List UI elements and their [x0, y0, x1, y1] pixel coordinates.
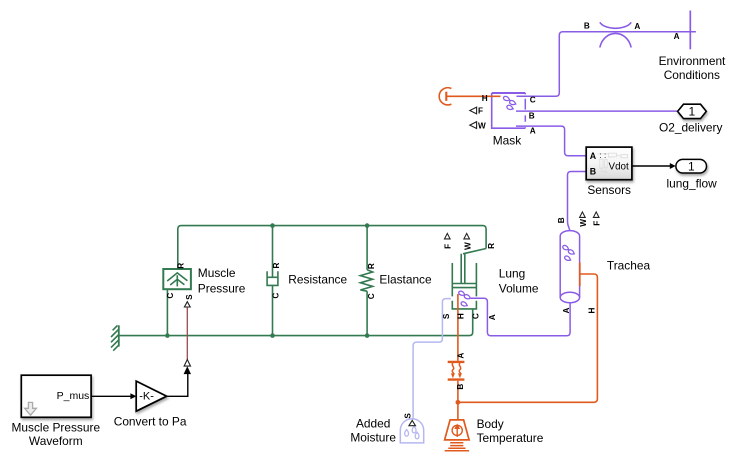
- svg-text:S: S: [442, 313, 451, 319]
- block Mask: [492, 92, 526, 94]
- svg-text:A: A: [590, 151, 597, 161]
- svg-text:: :: : :: [600, 151, 607, 160]
- svg-text:H: H: [588, 308, 597, 314]
- wire cap to Mask H: [446, 95, 500, 97]
- gain Convert to Pa: [136, 381, 167, 411]
- wire convective B to junction to Body Temperature: [457, 381, 459, 420]
- port W of Mask: [470, 122, 477, 129]
- wire junction to Trachea H: [458, 274, 598, 402]
- svg-text:Sensors: Sensors: [587, 183, 631, 197]
- wire Sensors Vdot to lung_flow: [632, 165, 670, 167]
- svg-text:H: H: [456, 313, 465, 319]
- svg-text:Elastance: Elastance: [379, 273, 432, 287]
- svg-text:R: R: [487, 243, 496, 249]
- pipe Trachea: [560, 231, 579, 298]
- outport lung_flow: [676, 159, 707, 173]
- svg-text:Moisture: Moisture: [350, 431, 396, 445]
- svg-text:Environment: Environment: [659, 54, 726, 68]
- svg-text:B: B: [584, 22, 590, 31]
- wire gain to arrow: [167, 374, 188, 397]
- wire Lung Volume H down: [457, 294, 459, 361]
- block Muscle Pressure Waveform: [21, 375, 91, 417]
- svg-text:A: A: [457, 353, 466, 359]
- wire Mask B to O2_delivery: [516, 110, 677, 112]
- svg-text:W: W: [579, 219, 588, 227]
- wire Sensors B to Trachea B: [568, 172, 587, 231]
- svg-text:R: R: [367, 263, 376, 269]
- wire top rail with R drops: [178, 226, 486, 269]
- wire Mask A to Sensors A: [516, 126, 586, 156]
- svg-text:Volume: Volume: [499, 282, 539, 296]
- port W of Trachea: [580, 212, 586, 218]
- svg-text:C: C: [471, 313, 480, 319]
- wire bottom rail: [119, 309, 473, 336]
- cap symbol at Mask H: [439, 88, 451, 105]
- port triangle S of Muscle Pressure: [184, 302, 190, 307]
- junction dot: [456, 400, 461, 405]
- source Body Temperature: [445, 420, 470, 440]
- svg-text:W: W: [464, 242, 473, 250]
- droplets in Trachea: [562, 245, 575, 262]
- port F of Mask: [470, 107, 477, 114]
- svg-text:A: A: [634, 22, 640, 31]
- svg-text:Temperature: Temperature: [477, 431, 544, 445]
- droplets in Mask: [503, 96, 517, 111]
- svg-text:Vdot: Vdot: [609, 162, 629, 173]
- svg-text:C: C: [166, 293, 175, 299]
- wire overlay on Trachea wall (H port): [579, 263, 581, 287]
- port triangle S of Added Moisture: [409, 420, 416, 425]
- icon gray arrow: [25, 402, 37, 415]
- svg-text:R: R: [272, 263, 281, 269]
- svg-text:A: A: [530, 126, 536, 135]
- wire MP C: [166, 289, 168, 335]
- wire Added Moisture S to Lung Volume S: [413, 299, 451, 420]
- wire Waveform to gain: [91, 395, 131, 397]
- svg-text:Resistance: Resistance: [288, 273, 347, 287]
- svg-text:R: R: [177, 263, 186, 269]
- wire Trachea A to Lung Volume A: [471, 298, 570, 336]
- ground: [118, 325, 120, 346]
- svg-text:S: S: [185, 294, 194, 300]
- svg-text:H: H: [482, 94, 488, 103]
- port F of Trachea: [593, 212, 599, 218]
- svg-text:Body: Body: [477, 417, 504, 431]
- svg-text:lung_flow: lung_flow: [666, 176, 717, 190]
- svg-text:S: S: [403, 413, 412, 419]
- port W of Lung Volume: [464, 233, 470, 239]
- spring Elastance: [366, 226, 368, 270]
- source Added Moisture dome: [400, 419, 423, 443]
- restriction symbol: [600, 22, 631, 28]
- arrowhead of signal wire: [184, 366, 191, 374]
- svg-text:1: 1: [688, 160, 695, 174]
- svg-text:Mask: Mask: [493, 134, 521, 148]
- svg-text:Muscle: Muscle: [198, 266, 236, 280]
- wire Mask C to Environment: [517, 32, 696, 97]
- junction dots: [165, 223, 369, 338]
- svg-text:B: B: [590, 167, 596, 177]
- svg-text:A: A: [562, 308, 571, 314]
- svg-text:C: C: [530, 95, 536, 104]
- svg-text:-K-: -K-: [139, 390, 154, 402]
- svg-text:A: A: [674, 32, 680, 41]
- svg-text:B: B: [456, 384, 465, 390]
- port triangle at signal end: [184, 360, 190, 367]
- svg-text:Added: Added: [356, 417, 390, 431]
- svg-text:1: 1: [688, 105, 695, 119]
- damper Resistance: [272, 226, 274, 278]
- svg-text:C: C: [367, 293, 376, 299]
- svg-text:Muscle Pressure: Muscle Pressure: [12, 420, 101, 434]
- converter Lung Volume: [463, 249, 486, 254]
- svg-text:P_mus: P_mus: [57, 390, 90, 402]
- svg-text:Trachea: Trachea: [607, 259, 651, 273]
- svg-text:A: A: [488, 314, 497, 320]
- block Sensors: [586, 147, 632, 180]
- transducer Muscle Pressure: [163, 269, 191, 289]
- reservoir Environment Conditions: [689, 11, 691, 50]
- faint sketch inside Sensors: [598, 153, 628, 172]
- svg-text:W: W: [478, 121, 486, 130]
- convective heat transfer element: [448, 362, 465, 380]
- svg-text:F: F: [592, 221, 601, 226]
- wire Convert to Pa to Muscle Pressure S: [186, 307, 188, 360]
- port O2_delivery hexagon: [678, 104, 707, 118]
- svg-text:F: F: [478, 107, 483, 116]
- svg-text:C: C: [271, 293, 280, 299]
- svg-text:Convert to Pa: Convert to Pa: [114, 415, 187, 429]
- svg-text:Lung: Lung: [499, 267, 525, 281]
- svg-text:B: B: [529, 112, 535, 121]
- droplets in Added Moisture: [405, 426, 419, 439]
- svg-text:Pressure: Pressure: [198, 281, 246, 295]
- port F of Lung Volume: [445, 233, 451, 239]
- svg-text:B: B: [557, 217, 566, 223]
- svg-text:O2_delivery: O2_delivery: [659, 121, 723, 135]
- svg-text:F: F: [444, 244, 453, 249]
- svg-text:Conditions: Conditions: [664, 68, 720, 82]
- thermal reference hatch: [445, 443, 469, 451]
- svg-text:Waveform: Waveform: [29, 434, 83, 448]
- droplets in Lung Volume: [458, 290, 471, 307]
